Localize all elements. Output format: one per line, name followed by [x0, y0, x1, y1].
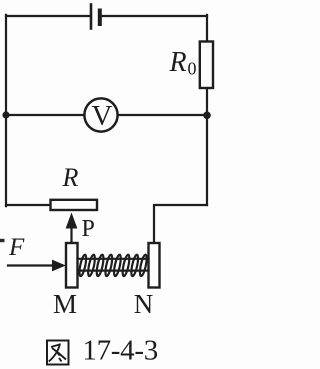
- plate M: [66, 243, 78, 288]
- wire voltmeter row left: [6, 114, 85, 116]
- edge artifact dash: [0, 239, 5, 242]
- svg-text:17-4-3: 17-4-3: [82, 335, 158, 367]
- slider arrow shaft (P wiper to plate M): [70, 226, 72, 244]
- voltmeter U1 circle: [84, 98, 117, 131]
- force arrow F shaft: [8, 264, 53, 266]
- caption hanzi "图" (hand drawn): [47, 341, 69, 365]
- svg-text:R: R: [169, 47, 187, 78]
- slider arrow head P: [66, 213, 78, 229]
- spring coil loops: [78, 254, 148, 276]
- svg-text:F: F: [8, 234, 25, 261]
- svg-text:N: N: [134, 289, 154, 319]
- svg-text:P: P: [82, 216, 95, 242]
- svg-text:0: 0: [188, 59, 197, 79]
- battery short plate (-): [98, 11, 102, 25]
- force arrow head F: [52, 260, 66, 272]
- svg-text:R: R: [62, 163, 79, 192]
- wire left rail: [5, 15, 7, 206]
- plate N: [149, 243, 160, 288]
- resistor R0 body: [200, 42, 213, 89]
- svg-text:M: M: [53, 289, 77, 319]
- battery long plate (+): [90, 5, 93, 29]
- wire right rail R0 to junction: [206, 88, 208, 115]
- svg-text:V: V: [92, 100, 113, 132]
- junction node left: [2, 111, 9, 118]
- wire battery to top-right: [100, 15, 207, 17]
- spring rod bottom line: [78, 270, 149, 272]
- wire left rail to rheostat: [6, 204, 51, 206]
- wire right rail to plate N: [154, 205, 207, 243]
- spring rod top line: [78, 258, 149, 260]
- junction node right: [203, 112, 211, 120]
- rheostat R body: [51, 200, 98, 210]
- wire top-left (left rail top to battery): [6, 15, 91, 17]
- wire voltmeter row right: [118, 114, 207, 116]
- wire right rail top: [206, 15, 208, 42]
- wire right rail lower: [206, 115, 208, 205]
